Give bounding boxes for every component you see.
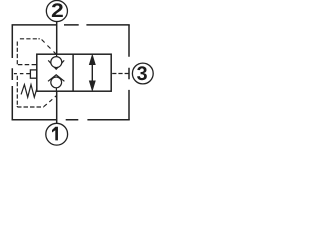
port circle 1 <box>46 123 68 145</box>
pilot top diagonal <box>42 40 56 54</box>
check stub bottom <box>55 88 57 91</box>
wire valve to port1 <box>56 91 58 123</box>
port circle 2 <box>46 0 67 21</box>
envelope top edge <box>12 24 130 26</box>
pilot bottom diagonal <box>44 96 57 107</box>
pilot top horizontal <box>20 38 40 40</box>
envelope left edge <box>11 25 13 120</box>
pilot bottom horizontal <box>17 106 43 108</box>
port circle 3 <box>132 63 153 84</box>
envelope bottom edge <box>12 119 130 121</box>
label 3 <box>137 66 147 80</box>
pilot port3 line <box>112 73 128 75</box>
check valve seat top <box>48 60 64 69</box>
spring <box>21 85 37 98</box>
check stub top <box>56 54 58 57</box>
pilot mid branch <box>18 64 37 66</box>
wire port2 to valve <box>56 22 58 55</box>
label 1 <box>52 127 58 141</box>
pilot piston box <box>30 70 36 78</box>
flow arrow head up <box>89 55 95 65</box>
valve body <box>37 54 111 91</box>
check valve ball top <box>51 57 62 68</box>
check valve ball bottom <box>51 77 62 88</box>
pilot vertical lower <box>16 76 18 107</box>
pilot vertical upper <box>16 42 18 65</box>
flow arrow head down <box>89 81 95 91</box>
flow arrow shaft <box>91 58 93 87</box>
label 2 <box>52 3 63 17</box>
envelope right edge <box>128 25 130 120</box>
valve divider <box>72 54 74 91</box>
pilot box branch <box>14 73 30 75</box>
check valve seat bottom <box>48 75 64 82</box>
